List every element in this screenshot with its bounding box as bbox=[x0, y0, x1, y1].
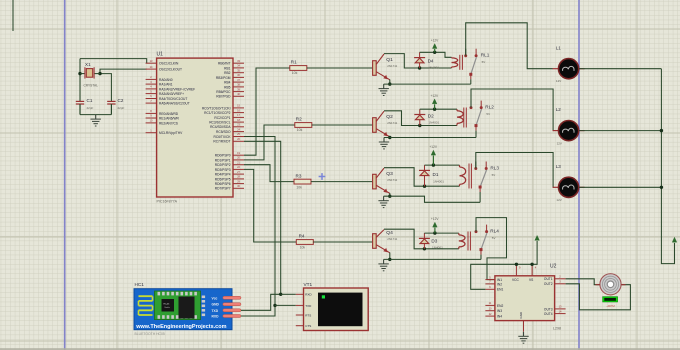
svg-text:RB6/PGC: RB6/PGC bbox=[216, 90, 231, 94]
svg-text:10k: 10k bbox=[292, 71, 298, 75]
svg-text:RD5/PSP5: RD5/PSP5 bbox=[215, 177, 231, 181]
power +12V row2 bbox=[431, 94, 439, 109]
svg-text:D4: D4 bbox=[428, 58, 434, 63]
svg-text:1N4001: 1N4001 bbox=[432, 246, 443, 250]
svg-text:2N1711: 2N1711 bbox=[387, 64, 397, 68]
relay RL2 contact bbox=[470, 101, 495, 131]
node crystal left bbox=[78, 72, 81, 75]
wire L2 right bbox=[579, 130, 661, 132]
svg-text:C2: C2 bbox=[118, 98, 124, 103]
svg-text:TXD: TXD bbox=[305, 304, 312, 308]
sheet border line right bbox=[578, 0, 580, 350]
power +12V row4 bbox=[431, 217, 439, 233]
svg-text:R2: R2 bbox=[296, 116, 302, 121]
transistor Q4 bbox=[373, 230, 398, 261]
svg-text:OSC1/CLKIN: OSC1/CLKIN bbox=[159, 62, 179, 66]
svg-text:2N1711: 2N1711 bbox=[387, 237, 397, 241]
svg-text:RD4/PSP4: RD4/PSP4 bbox=[215, 173, 231, 177]
wire Q1 collector bbox=[384, 54, 420, 68]
wire R3 to Q3 bbox=[311, 181, 372, 183]
wire RL2 pole bbox=[475, 131, 477, 138]
svg-text:+12V: +12V bbox=[431, 94, 439, 98]
svg-text:OUT2: OUT2 bbox=[544, 282, 553, 286]
relay RL1 coil bbox=[452, 55, 463, 70]
svg-text:X1: X1 bbox=[85, 62, 91, 67]
svg-text:+RPM: +RPM bbox=[606, 304, 615, 308]
svg-text:RD3/PSP3: RD3/PSP3 bbox=[215, 168, 231, 172]
wire rail row3 bottom bbox=[425, 185, 460, 187]
svg-text:RC3/SCK/SCL: RC3/SCK/SCL bbox=[209, 121, 231, 125]
svg-text:R1: R1 bbox=[291, 59, 297, 64]
origin marker bbox=[319, 173, 326, 180]
diode D1 bbox=[419, 165, 444, 186]
node RX junction bbox=[279, 293, 282, 296]
wire HC1 RXD to VT1 TXD bbox=[241, 305, 275, 316]
ground row1 bbox=[379, 84, 389, 95]
svg-text:TXD: TXD bbox=[212, 309, 219, 313]
relay RL4 contact bbox=[475, 225, 500, 255]
svg-text:RC7/RX/DT: RC7/RX/DT bbox=[213, 140, 230, 144]
wire RL4 pole bbox=[480, 255, 482, 260]
wire RL1 pole bbox=[470, 79, 472, 84]
svg-text:Q2: Q2 bbox=[386, 114, 393, 120]
ground row3 bbox=[378, 196, 388, 207]
svg-text:RL3: RL3 bbox=[490, 165, 499, 170]
relay RL2 coil bbox=[457, 108, 466, 128]
wire RL2 NO to L2 bbox=[471, 89, 553, 131]
svg-text:GND: GND bbox=[212, 303, 220, 307]
svg-text:IN1: IN1 bbox=[497, 278, 502, 282]
node crystal right bbox=[98, 72, 101, 75]
crystal X1 bbox=[84, 62, 99, 88]
svg-text:RA2/AN2/VREF-/CVREF: RA2/AN2/VREF-/CVREF bbox=[159, 87, 195, 91]
relay RL3 contact bbox=[474, 162, 499, 193]
wire RD3 to R4 bbox=[244, 169, 296, 242]
microcontroller U1 body bbox=[157, 52, 234, 204]
wire RL4 NO to U2 bbox=[476, 218, 507, 280]
ground crystal bbox=[91, 115, 101, 126]
node VS rail bbox=[530, 263, 533, 266]
svg-text:RA0/AN0: RA0/AN0 bbox=[159, 78, 173, 82]
svg-text:RC1/T1OSI/CCP2: RC1/T1OSI/CCP2 bbox=[204, 111, 231, 115]
svg-text:D3: D3 bbox=[431, 238, 437, 243]
svg-text:RA4/T0CKI/C1OUT: RA4/T0CKI/C1OUT bbox=[159, 97, 187, 101]
svg-text:RD6/PSP6: RD6/PSP6 bbox=[215, 182, 231, 186]
svg-text:PIC16F877A: PIC16F877A bbox=[157, 200, 178, 204]
svg-text:RTS: RTS bbox=[305, 313, 311, 317]
svg-text:+12V: +12V bbox=[429, 145, 437, 149]
svg-text:www.TheEngineeringProjects.com: www.TheEngineeringProjects.com bbox=[135, 324, 226, 330]
wire rail row2 bottom bbox=[420, 125, 457, 127]
wire rail row2 top bbox=[420, 108, 457, 110]
svg-text:Q1: Q1 bbox=[386, 57, 393, 63]
sheet border line left bbox=[64, 0, 66, 350]
wire rail row1 bottom bbox=[420, 67, 452, 69]
ground row4 bbox=[378, 259, 388, 270]
svg-text:MCLR/Vpp/THV: MCLR/Vpp/THV bbox=[159, 131, 183, 135]
U1 left pins bbox=[146, 59, 196, 135]
svg-text:BLUETOOTH HC05: BLUETOOTH HC05 bbox=[135, 332, 165, 336]
wire Q4 emitter rail bbox=[384, 258, 481, 260]
svg-text:RB4: RB4 bbox=[224, 81, 231, 85]
wire offscreen stub bbox=[12, 0, 14, 31]
motor M1 bbox=[596, 274, 626, 308]
svg-text:10k: 10k bbox=[296, 185, 302, 189]
svg-text:RC5/SDO: RC5/SDO bbox=[216, 130, 231, 134]
svg-text:RD7/PSP7: RD7/PSP7 bbox=[215, 187, 231, 191]
wire EN1 supply rail bbox=[471, 241, 537, 289]
svg-text:+12V: +12V bbox=[431, 217, 439, 221]
svg-text:IN3: IN3 bbox=[497, 309, 502, 313]
motor driver U2 bbox=[485, 263, 565, 331]
wire Q3 collector bbox=[384, 168, 425, 187]
wire R4 to Q4 bbox=[313, 241, 372, 243]
capacitor C2 bbox=[107, 98, 124, 115]
diode D2 bbox=[414, 109, 439, 125]
lamp L1 bbox=[553, 45, 585, 83]
svg-text:U2: U2 bbox=[550, 263, 557, 269]
svg-text:RC0/T1OSO/T1CKI: RC0/T1OSO/T1CKI bbox=[202, 106, 231, 110]
resistor R2 bbox=[294, 116, 312, 132]
node L2 rail bbox=[660, 129, 663, 132]
wire L3 right bbox=[579, 186, 661, 188]
wire crystal bottom bbox=[80, 114, 111, 116]
svg-text:5V: 5V bbox=[492, 173, 496, 177]
wire crystal right terminal bbox=[94, 73, 100, 75]
wire R2 to Q2 bbox=[312, 124, 373, 126]
svg-text:RD2/PSP2: RD2/PSP2 bbox=[215, 163, 231, 167]
power +12V row1 bbox=[431, 39, 439, 53]
svg-text:RXD: RXD bbox=[305, 293, 312, 297]
svg-text:RB7/PGD: RB7/PGD bbox=[216, 95, 231, 99]
svg-text:L298: L298 bbox=[553, 326, 561, 330]
svg-text:RL2: RL2 bbox=[485, 104, 494, 109]
svg-text:Q3: Q3 bbox=[386, 171, 393, 177]
svg-text:22pF: 22pF bbox=[87, 106, 94, 110]
svg-text:RD1/PSP1: RD1/PSP1 bbox=[215, 158, 231, 162]
wire R1 to Q1 bbox=[307, 67, 373, 69]
bluetooth module HC1 bbox=[134, 282, 241, 336]
svg-text:RA3/AN3/VREF+: RA3/AN3/VREF+ bbox=[159, 92, 184, 96]
svg-text:EN1: EN1 bbox=[497, 288, 504, 292]
bottom window edge bbox=[0, 348, 680, 350]
wire RL3 NO to L3 bbox=[476, 153, 553, 188]
svg-text:12V: 12V bbox=[556, 79, 561, 83]
wire Q3 emitter rail bbox=[384, 196, 481, 202]
svg-text:RC4/SDI/SDA: RC4/SDI/SDA bbox=[210, 125, 231, 129]
wire VT1 RXD bbox=[281, 293, 296, 295]
wire crystal left vertical bbox=[79, 59, 81, 102]
svg-text:Q4: Q4 bbox=[386, 230, 393, 236]
svg-text:L1: L1 bbox=[556, 45, 562, 50]
resistor R3 bbox=[294, 173, 312, 189]
svg-text:OUT4: OUT4 bbox=[544, 312, 553, 316]
svg-text:RL4: RL4 bbox=[490, 228, 499, 233]
transistor Q3 bbox=[373, 168, 398, 198]
U1 right pins bbox=[202, 59, 244, 191]
svg-text:RB2: RB2 bbox=[224, 71, 231, 75]
node power row1 bbox=[433, 51, 436, 54]
svg-text:OUT1: OUT1 bbox=[544, 277, 553, 281]
node L3 rail bbox=[660, 186, 663, 189]
svg-text:VT1: VT1 bbox=[304, 282, 313, 287]
power +12V row3 bbox=[429, 145, 437, 165]
svg-text:RD0/PSP0: RD0/PSP0 bbox=[215, 154, 231, 158]
wire rail row4 top bbox=[424, 232, 458, 234]
transistor Q2 bbox=[373, 111, 398, 139]
wire OUT1 to motor bbox=[566, 279, 600, 285]
svg-text:RC2/CCP1: RC2/CCP1 bbox=[214, 116, 230, 120]
svg-text:OSC2/CLKOUT: OSC2/CLKOUT bbox=[159, 68, 182, 72]
svg-text:VCC: VCC bbox=[512, 278, 520, 282]
relay RL3 coil bbox=[460, 164, 472, 189]
svg-text:CRYSTAL: CRYSTAL bbox=[84, 83, 99, 87]
svg-text:12V: 12V bbox=[557, 141, 562, 145]
svg-text:D2: D2 bbox=[428, 113, 434, 118]
svg-text:10k: 10k bbox=[300, 246, 306, 250]
wire crystal right C2 branch bbox=[100, 74, 111, 102]
svg-text:1N4001: 1N4001 bbox=[428, 66, 439, 70]
node power row4 bbox=[433, 231, 436, 234]
power +12V lamps bbox=[672, 237, 677, 243]
svg-text:L2: L2 bbox=[556, 107, 562, 112]
svg-text:IN2: IN2 bbox=[497, 282, 502, 286]
svg-text:RB3/PGM: RB3/PGM bbox=[216, 76, 231, 80]
svg-text:RB5: RB5 bbox=[224, 85, 231, 89]
node D1 anode bbox=[423, 185, 426, 188]
lamp L2 bbox=[553, 107, 585, 145]
wire HC1 TXD to VT1 RXD bbox=[241, 294, 281, 310]
wire lamp supply rail bbox=[661, 69, 674, 264]
svg-text:D1: D1 bbox=[433, 172, 439, 177]
resistor R4 bbox=[296, 233, 314, 249]
transistor Q1 bbox=[373, 54, 398, 86]
wire rail row4 bottom bbox=[424, 248, 458, 250]
svg-text:RB1: RB1 bbox=[224, 66, 231, 70]
diode D4 bbox=[414, 52, 439, 69]
wire Q2 collector bbox=[384, 111, 420, 126]
relay RL1 contact bbox=[464, 49, 489, 80]
virtual terminal VT1 bbox=[296, 282, 368, 331]
wire Q1 emitter rail bbox=[384, 83, 471, 85]
svg-text:5V: 5V bbox=[482, 60, 486, 64]
svg-text:RE1/AN6/WR: RE1/AN6/WR bbox=[159, 116, 180, 120]
svg-text:EN2: EN2 bbox=[497, 304, 504, 308]
svg-text:RA1/AN1: RA1/AN1 bbox=[159, 83, 173, 87]
wire rail row3 top bbox=[425, 164, 460, 166]
svg-text:GND: GND bbox=[519, 312, 523, 318]
svg-text:5V: 5V bbox=[486, 112, 490, 116]
wire OSC2 net bbox=[100, 69, 147, 74]
svg-text:R3: R3 bbox=[296, 173, 302, 178]
svg-text:RL1: RL1 bbox=[481, 53, 490, 58]
svg-text:U1: U1 bbox=[157, 52, 164, 58]
wire Q2 emitter rail bbox=[384, 137, 476, 139]
resistor R1 bbox=[289, 59, 307, 75]
svg-text:RE2/AN7/CS: RE2/AN7/CS bbox=[159, 121, 179, 125]
node D2 anode bbox=[418, 124, 421, 127]
wire RD0 to R1 bbox=[244, 68, 290, 155]
capacitor C1 bbox=[76, 98, 94, 115]
wire RD2 to R3 bbox=[244, 165, 294, 182]
wire RD1 to R2 bbox=[244, 125, 295, 160]
relay RL4 coil bbox=[459, 232, 471, 251]
svg-text:2N1711: 2N1711 bbox=[387, 121, 397, 125]
svg-text:22pF: 22pF bbox=[118, 106, 125, 110]
svg-text:12V: 12V bbox=[556, 198, 561, 202]
ground row2 bbox=[379, 138, 389, 149]
svg-text:CTS: CTS bbox=[305, 324, 311, 328]
wire rail row1 top bbox=[420, 52, 452, 57]
wire RC7 RX bbox=[244, 141, 281, 294]
node VCC rail bbox=[515, 263, 518, 266]
svg-text:HC-05: HC-05 bbox=[164, 304, 171, 306]
svg-text:L3: L3 bbox=[556, 164, 562, 169]
wire RL1 NO to L1 bbox=[466, 23, 553, 69]
svg-text:2N1711: 2N1711 bbox=[387, 178, 397, 182]
svg-text:Vcc: Vcc bbox=[212, 296, 218, 300]
svg-text:IN4: IN4 bbox=[497, 315, 502, 319]
wire crystal left terminal bbox=[80, 73, 85, 75]
svg-text:HC1: HC1 bbox=[135, 282, 145, 287]
svg-text:10k: 10k bbox=[297, 128, 303, 132]
svg-text:1N4001: 1N4001 bbox=[428, 121, 439, 125]
diode D3 bbox=[419, 233, 443, 250]
wire OSC1 net bbox=[80, 59, 147, 64]
wire L1 right bbox=[579, 68, 661, 70]
wire RL3 pole bbox=[479, 192, 481, 202]
svg-text:5V: 5V bbox=[492, 236, 496, 240]
node TX junction bbox=[273, 304, 276, 307]
svg-text:RA5/AN4/SS/C2OUT: RA5/AN4/SS/C2OUT bbox=[159, 102, 190, 106]
svg-text:RE0/AN5/RD: RE0/AN5/RD bbox=[159, 112, 179, 116]
wire VT1 TXD bbox=[275, 304, 296, 306]
svg-text:RXD: RXD bbox=[212, 315, 220, 319]
node power row2 bbox=[433, 108, 436, 111]
lamp L3 bbox=[553, 164, 585, 202]
svg-text:C1: C1 bbox=[87, 98, 93, 103]
wire RC6 TX bbox=[244, 137, 275, 306]
node power row3 bbox=[432, 163, 435, 166]
svg-text:OUT3: OUT3 bbox=[544, 307, 553, 311]
wire OUT2 to motor bbox=[566, 284, 631, 310]
svg-text:R4: R4 bbox=[299, 233, 305, 238]
node D3 anode bbox=[423, 247, 426, 250]
node D4 anode bbox=[418, 66, 421, 69]
svg-text:+12V: +12V bbox=[431, 39, 439, 43]
svg-text:RB0/INT: RB0/INT bbox=[218, 62, 230, 66]
power +12V U2 bbox=[535, 235, 540, 240]
wire Q4 collector bbox=[384, 229, 424, 249]
svg-text:1N4001: 1N4001 bbox=[433, 180, 444, 184]
ground U2 bbox=[518, 332, 528, 343]
svg-text:RC6/TX/CK: RC6/TX/CK bbox=[214, 135, 232, 139]
